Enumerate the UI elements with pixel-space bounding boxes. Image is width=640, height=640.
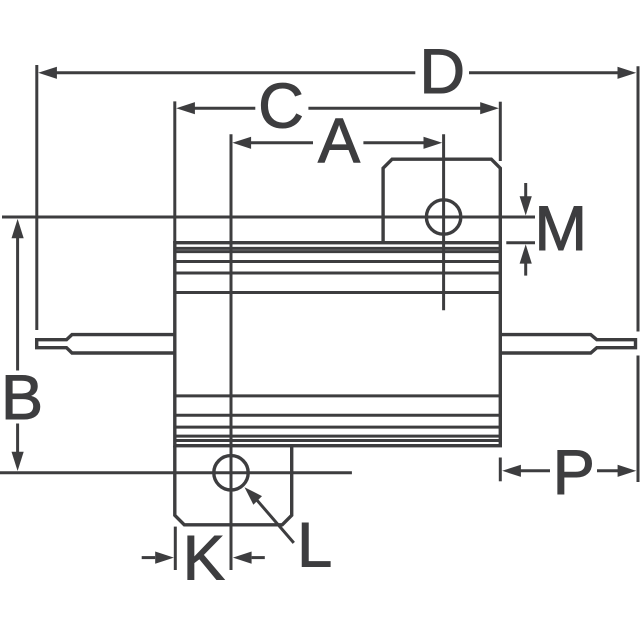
dimension C right extension line — [499, 102, 502, 161]
svg-text:A: A — [318, 106, 360, 176]
dimension C left arrowhead — [176, 102, 195, 114]
bottom heatsink fin line 2 — [175, 414, 501, 417]
svg-text:L: L — [297, 511, 332, 581]
dimension K right arrow tail — [252, 556, 265, 559]
dimension D left extension line — [35, 65, 38, 330]
dimension M bottom arrow shaft — [524, 263, 527, 276]
dimension C right arrowhead — [480, 102, 499, 114]
bottom mounting tab — [175, 446, 292, 525]
dimension K right arrowhead — [233, 552, 252, 564]
center line through lower hole (A left extension and K right extension) — [230, 134, 233, 570]
dimension P right arrowhead — [618, 465, 637, 477]
resistor body outline — [175, 243, 501, 446]
reference line through upper mounting hole center — [2, 216, 535, 219]
dimension P left arrowhead — [502, 465, 521, 477]
svg-text:C: C — [258, 71, 304, 141]
svg-text:B: B — [1, 363, 43, 433]
dimension B bottom arrowhead — [12, 452, 24, 471]
dimension M top arrowhead — [520, 196, 532, 215]
dimension D right arrowhead — [618, 67, 637, 79]
dimension D left arrowhead — [38, 67, 57, 79]
dimension B top arrowhead — [12, 219, 24, 238]
dimension M reference line at body top edge — [506, 241, 535, 244]
dimension K left extension line — [174, 527, 177, 570]
dimension K left arrow tail — [142, 556, 156, 559]
svg-text:P: P — [553, 438, 595, 508]
dimension D line — [55, 71, 618, 74]
lower mounting hole — [214, 456, 248, 490]
svg-text:D: D — [420, 37, 466, 107]
dimension C line — [194, 107, 481, 110]
center line through upper hole (A right extension) — [442, 134, 445, 310]
bottom heatsink fin line 1 — [175, 394, 501, 397]
dimension C left extension line — [173, 101, 176, 243]
top heatsink fin line 5 — [175, 291, 501, 294]
left lead wire — [37, 335, 175, 353]
top mounting tab — [383, 159, 500, 243]
reference line through lower mounting hole center — [0, 471, 352, 474]
svg-text:K: K — [183, 524, 225, 594]
dimension L leader line — [254, 497, 294, 543]
dimension D and P right extension line — [637, 66, 640, 482]
top heatsink fin line 1 — [175, 247, 501, 250]
dimension M bottom arrowhead — [520, 244, 532, 263]
right lead wire — [500, 335, 635, 353]
upper mounting hole — [426, 200, 460, 234]
svg-text:M: M — [535, 194, 587, 264]
top heatsink fin line 3 — [175, 260, 501, 263]
dimension B line — [16, 237, 19, 453]
dimension K left arrowhead — [155, 552, 174, 564]
dimension M top arrow shaft — [524, 183, 527, 197]
dimension P left extension line — [499, 458, 502, 482]
bottom heatsink fin line 3 — [175, 426, 501, 429]
bottom heatsink fin line 5 — [175, 439, 501, 442]
top heatsink fin line 4 — [175, 272, 501, 275]
dimension L leader arrowhead — [245, 487, 263, 505]
dimension P line — [520, 469, 619, 472]
dimension A line — [250, 141, 425, 144]
dimension A left arrowhead — [232, 137, 251, 149]
dimension A right arrowhead — [424, 137, 443, 149]
top heatsink fin line 2 — [175, 250, 501, 253]
bottom heatsink fin line 4 — [175, 435, 501, 438]
